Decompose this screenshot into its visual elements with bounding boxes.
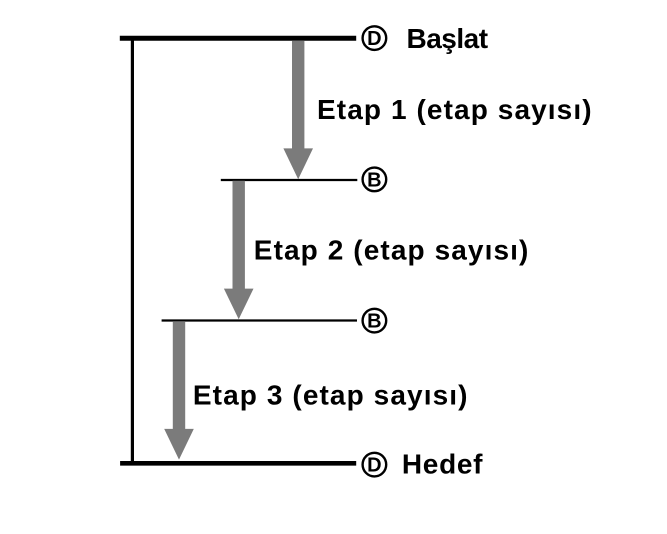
node D (target marker circled D) bbox=[363, 453, 387, 477]
node D (start marker circled D) bbox=[363, 26, 387, 50]
node line: intermediate level 2 thin horizontal line bbox=[162, 319, 357, 321]
svg-text:B: B bbox=[367, 311, 381, 333]
arrow Etap 1 (gray down arrow) bbox=[283, 41, 313, 179]
arrow Etap 2 (gray down arrow) bbox=[224, 181, 254, 319]
arrow Etap 3 (gray down arrow) bbox=[164, 321, 194, 459]
svg-text:B: B bbox=[367, 170, 381, 192]
node line: Hedef (target) thick horizontal line bbox=[120, 461, 356, 466]
node line: intermediate level 1 thin horizontal line bbox=[221, 179, 357, 181]
node B (intermediate marker circled B, level 2) bbox=[363, 309, 387, 333]
svg-text:Etap 3 (etap sayısı): Etap 3 (etap sayısı) bbox=[193, 380, 469, 411]
node line: Başlat (start) thick horizontal line bbox=[120, 36, 356, 41]
svg-text:Etap 1 (etap sayısı): Etap 1 (etap sayısı) bbox=[317, 94, 593, 125]
svg-text:Başlat: Başlat bbox=[407, 23, 488, 54]
svg-text:D: D bbox=[367, 28, 381, 50]
svg-text:D: D bbox=[367, 455, 381, 477]
node B (intermediate marker circled B, level 1) bbox=[363, 168, 387, 192]
svg-text:Etap 2 (etap sayısı): Etap 2 (etap sayısı) bbox=[254, 235, 530, 266]
svg-text:Hedef: Hedef bbox=[402, 448, 483, 479]
wire: left vertical line from Başlat level to Hedef level bbox=[131, 38, 134, 463]
